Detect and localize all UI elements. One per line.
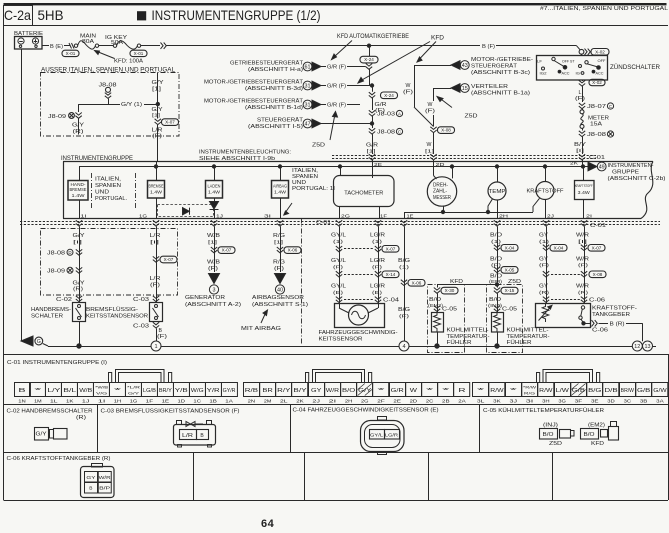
connector C-01 crossing <box>401 220 407 226</box>
svg-text:(F): (F) <box>372 265 383 271</box>
svg-text:*: * <box>510 388 517 394</box>
wire W2 to arrow 15 <box>434 88 452 90</box>
svg-text:R: R <box>458 388 466 394</box>
node ground 12 <box>632 341 642 351</box>
svg-text:G/R (F): G/R (F) <box>327 65 346 71</box>
connector X-30 <box>434 288 440 294</box>
connector view C-06 <box>81 467 115 498</box>
svg-text:13: 13 <box>645 344 651 350</box>
svg-text:C-05: C-05 <box>502 307 517 313</box>
lamp AIRBAG 1.4W <box>278 165 281 168</box>
pin 1A cell <box>222 383 238 397</box>
fuse MAIN 80A <box>74 44 77 47</box>
svg-text:BREMSE: BREMSE <box>149 184 164 189</box>
wire B to ignition switch <box>141 45 160 47</box>
lamp LADEN 1.4W with diode <box>212 165 215 168</box>
svg-text:2G: 2G <box>341 213 351 218</box>
svg-text:4: 4 <box>402 344 405 350</box>
page arrow 43 MOTOR-/GETRIEBE-STEUERGERAET B-3c <box>451 61 460 70</box>
svg-text:B/O: B/O <box>342 388 355 394</box>
svg-text:ZAHL-: ZAHL- <box>433 189 447 195</box>
svg-text:5HB: 5HB <box>38 7 64 23</box>
svg-text:(ABSCHNITT B-1a): (ABSCHNITT B-1a) <box>471 91 530 97</box>
svg-text:B: B <box>18 388 27 394</box>
node ground EM2 sensor <box>435 344 439 348</box>
svg-text:(F): (F) <box>399 314 410 320</box>
svg-text:3B: 3B <box>640 399 648 404</box>
wire W diagonal <box>414 107 434 127</box>
connector X-01 right <box>130 50 147 56</box>
svg-text:HANDBREMS-: HANDBREMS- <box>31 307 71 313</box>
svg-text:3C: 3C <box>624 399 632 404</box>
gauge DREHZAHLMESSER <box>427 177 456 206</box>
svg-text:(1): (1) <box>372 239 383 245</box>
svg-text:C-01: C-01 <box>316 220 331 226</box>
svg-text:B: B <box>200 433 204 439</box>
svg-text:A: A <box>398 111 401 116</box>
svg-text:G/B: G/B <box>637 388 651 394</box>
wire W to arrow 43 <box>414 65 451 67</box>
svg-text:TACHOMETER: TACHOMETER <box>344 191 383 197</box>
svg-text:G: G <box>37 339 41 345</box>
connector C-01 crossing <box>211 220 217 226</box>
svg-text:(F): (F) <box>578 263 589 269</box>
svg-text:B/G: B/G <box>398 307 410 313</box>
svg-text:C-04 FAHRZEUGGESCHWINDIGKEITSS: C-04 FAHRZEUGGESCHWINDIGKEITSSENSOR (E) <box>293 408 439 414</box>
connector J8-07 C <box>579 103 585 109</box>
dashed connector line C-01 top <box>332 155 596 157</box>
pin 1M cell <box>30 383 46 397</box>
ground symbol G <box>21 336 33 346</box>
svg-text:X-04: X-04 <box>554 245 564 250</box>
svg-text:2F: 2F <box>377 399 385 404</box>
svg-text:J8-07: J8-07 <box>587 104 606 110</box>
svg-text:3J: 3J <box>510 399 518 404</box>
svg-text:MOTOR-/GETRIEBE-: MOTOR-/GETRIEBE- <box>471 57 533 63</box>
svg-text:V/G: V/G <box>96 390 107 395</box>
svg-text:(ABSCHNITT B-3c): (ABSCHNITT B-3c) <box>471 70 530 76</box>
svg-text:Z5D: Z5D <box>508 279 521 285</box>
connector C-01 crossing B/Y pin 2K <box>579 154 585 160</box>
svg-text:(F): (F) <box>274 266 285 272</box>
svg-text:LF: LF <box>537 60 542 64</box>
svg-text:2L: 2L <box>280 399 288 404</box>
svg-text:Y/B: Y/B <box>175 388 189 394</box>
svg-text:64: 64 <box>261 518 275 530</box>
svg-text:KEITSSTANDSENSOR: KEITSSTANDSENSOR <box>86 314 148 320</box>
wire B to X-24 tap <box>367 44 370 47</box>
svg-text:KRAFTSTOFF: KRAFTSTOFF <box>527 189 564 195</box>
svg-text:C-01: C-01 <box>590 223 606 229</box>
svg-text:D/B: D/B <box>604 388 618 394</box>
connector C-06 pair <box>543 297 549 303</box>
svg-text:#7...ITALIEN, SPANIEN UND PORT: #7...ITALIEN, SPANIEN UND PORTUGAL <box>540 6 669 12</box>
sender KRAFTSTOFF-TANKGEBER <box>536 304 591 328</box>
pin 2K cell <box>292 383 308 397</box>
svg-text:1M: 1M <box>34 399 42 404</box>
svg-text:[I]: [I] <box>150 240 159 246</box>
connector C-01 crossing <box>494 220 500 226</box>
svg-text:3E: 3E <box>591 399 599 404</box>
connector X-24 upper <box>360 56 378 63</box>
svg-text:C-02: C-02 <box>56 297 72 303</box>
svg-text:B/O: B/O <box>490 257 502 263</box>
cluster internal ground bus <box>405 212 534 214</box>
svg-text:ACC: ACC <box>562 72 571 76</box>
svg-text:B/L: B/L <box>63 388 76 394</box>
svg-text:(F): (F) <box>403 90 414 96</box>
svg-text:(E): (E) <box>372 290 383 296</box>
svg-text:C-2a: C-2a <box>4 7 31 23</box>
svg-text:31: 31 <box>305 83 311 89</box>
wire W/R column fuel gauge <box>584 226 586 303</box>
svg-text:(1): (1) <box>333 239 344 245</box>
connector C-05 left <box>434 306 440 312</box>
svg-text:1B: 1B <box>209 399 217 404</box>
svg-text:1.4W: 1.4W <box>150 190 162 195</box>
connector J8-08 X <box>579 131 585 137</box>
svg-text:GENERATOR: GENERATOR <box>185 295 225 301</box>
svg-text:[1]: [1] <box>274 240 283 246</box>
connector X-01 left <box>62 50 79 56</box>
svg-text:R/G: R/G <box>273 260 285 266</box>
variant box EM2 KFD <box>428 285 465 353</box>
variant box lower left <box>41 229 178 296</box>
svg-text:GY/L: GY/L <box>331 284 346 290</box>
svg-text:IG: IG <box>576 72 581 76</box>
svg-text:1L: 1L <box>50 399 58 404</box>
svg-text:IG2: IG2 <box>540 72 547 76</box>
node ground junction handbrake <box>77 344 81 348</box>
svg-text:L/Y: L/Y <box>47 388 61 394</box>
node ground 13 <box>643 341 653 351</box>
svg-text:W/R: W/R <box>576 284 589 290</box>
pin 2A cell <box>454 383 470 397</box>
pin 2E cell <box>390 383 406 397</box>
svg-text:47: 47 <box>305 121 311 127</box>
pin 3B cell <box>636 383 652 397</box>
svg-text:61: 61 <box>305 64 311 70</box>
svg-text:(INJ): (INJ) <box>543 423 558 429</box>
svg-text:X-07: X-07 <box>592 245 602 250</box>
pin 3K cell <box>489 383 505 397</box>
svg-text:C-05: C-05 <box>442 307 457 313</box>
pin 3I cell <box>522 383 538 397</box>
svg-text:43: 43 <box>462 63 468 69</box>
pin 3E cell <box>587 383 603 397</box>
pin 2C cell <box>422 383 438 397</box>
svg-text:3I: 3I <box>526 399 534 404</box>
svg-text:B/O: B/O <box>584 432 595 438</box>
svg-text:LG/B: LG/B <box>143 388 157 394</box>
pin 1F cell <box>142 383 158 397</box>
svg-text:1A: 1A <box>225 399 233 404</box>
connector X-06 on R/G <box>277 247 283 253</box>
wire B(E) battery to fuse <box>42 45 49 47</box>
svg-text:MIT AIRBAG: MIT AIRBAG <box>241 326 282 332</box>
gauge KRAFTSTOFF <box>536 182 554 200</box>
svg-text:C-02 HANDBREMSSCHALTER: C-02 HANDBREMSSCHALTER <box>7 409 93 415</box>
svg-text:R/Y: R/Y <box>277 388 291 394</box>
svg-text:(F): (F) <box>491 263 502 269</box>
svg-text:BR/Y: BR/Y <box>159 388 173 394</box>
svg-text:(R): (R) <box>76 415 86 421</box>
svg-text:1N: 1N <box>18 399 26 404</box>
svg-text:C-01 INSTRUMENTENGRUPPE (I): C-01 INSTRUMENTENGRUPPE (I) <box>7 360 107 366</box>
svg-text:[1]: [1] <box>208 240 217 246</box>
svg-text:G/R (F): G/R (F) <box>327 84 346 90</box>
pin 1C cell <box>190 383 206 397</box>
svg-text:2C: 2C <box>426 399 434 404</box>
svg-text:C-03 BREMSFLÜSSIGKEITSSTANDSEN: C-03 BREMSFLÜSSIGKEITSSTANDSENSOR (F) <box>101 408 240 415</box>
svg-text:G/Y: G/Y <box>358 388 372 394</box>
svg-text:1I: 1I <box>81 213 87 218</box>
svg-text:J8-08: J8-08 <box>47 251 65 257</box>
pin 1K cell <box>62 383 78 397</box>
svg-text:*: * <box>34 388 41 394</box>
pin 2F cell <box>373 383 389 397</box>
pin 1I cell <box>94 383 110 397</box>
svg-text:W: W <box>406 83 411 89</box>
svg-text:1C: 1C <box>193 399 201 404</box>
svg-text:2A: 2A <box>458 399 466 404</box>
sensor FAHRZEUGGESCHWINDIGKEITSSENSOR <box>335 304 385 328</box>
wire W/B column generator <box>214 226 216 272</box>
connector C-01 crossing <box>543 220 549 226</box>
svg-text:GY: GY <box>86 475 96 481</box>
svg-text:(ABSCHNITT H-a): (ABSCHNITT H-a) <box>248 67 303 73</box>
connector C-01 crossing <box>375 220 381 226</box>
svg-text:W/B: W/B <box>79 388 93 394</box>
svg-text:[I]: [I] <box>73 240 82 246</box>
wire branch to EM2 variant <box>437 284 497 286</box>
svg-text:G/Y: G/Y <box>128 390 140 395</box>
dashed connector line C-01 bottom <box>20 221 660 223</box>
svg-text:3D: 3D <box>607 399 615 404</box>
svg-text:L/W: L/W <box>556 388 570 394</box>
svg-text:[1]: [1] <box>367 149 376 155</box>
lamp BREMSE 1.4W <box>154 165 157 168</box>
pin 3H cell <box>538 383 554 397</box>
svg-text:W/B: W/B <box>207 260 221 266</box>
connector X-02 lower <box>582 80 584 81</box>
svg-text:2J: 2J <box>312 399 320 404</box>
svg-text:C-03: C-03 <box>133 324 149 330</box>
connector X-07 on W/R <box>581 245 587 251</box>
svg-text:3H: 3H <box>542 399 550 404</box>
svg-text:C-04: C-04 <box>383 298 399 304</box>
sensor BREMSFLUESSIGKEITSSTANDSENSOR <box>150 303 163 322</box>
wire to ground 12 13 <box>642 323 644 341</box>
svg-text:(1): (1) <box>399 265 410 271</box>
svg-text:1F: 1F <box>146 399 154 404</box>
pin 3L cell <box>473 383 489 397</box>
svg-text:W: W <box>427 142 432 148</box>
svg-text:Z5D: Z5D <box>549 441 563 447</box>
svg-text:2K: 2K <box>296 399 304 404</box>
svg-text:B (E): B (E) <box>50 44 63 50</box>
svg-text:X-02: X-02 <box>592 80 602 85</box>
svg-text:J8-09: J8-09 <box>47 269 65 275</box>
connector X-15 <box>494 288 500 294</box>
svg-text:J8-09: J8-09 <box>48 114 66 120</box>
svg-text:1E: 1E <box>162 399 170 404</box>
svg-text:3I: 3I <box>264 213 271 218</box>
switch HANDBREMSSCHALTER <box>73 303 86 322</box>
svg-text:C-06 KRAFTSTOFFTANKGEBER (R): C-06 KRAFTSTOFFTANKGEBER (R) <box>7 456 111 462</box>
svg-text:3: 3 <box>213 287 216 293</box>
wire G/Y vertical to cluster <box>157 73 159 105</box>
svg-text:BREMSFLÜSSIG-: BREMSFLÜSSIG- <box>86 306 138 313</box>
svg-text:49: 49 <box>599 164 605 170</box>
svg-text:W/R: W/R <box>576 257 589 263</box>
svg-text:AIRBAGSENSOR: AIRBAGSENSOR <box>252 295 304 301</box>
svg-text:(F): (F) <box>157 334 168 340</box>
svg-text:B/O: B/O <box>543 432 554 438</box>
svg-text:J8-08: J8-08 <box>377 130 395 136</box>
svg-text:DREH-: DREH- <box>433 182 448 188</box>
wire L/R column brake fluid <box>156 226 158 302</box>
svg-text:3.4W: 3.4W <box>578 190 591 195</box>
svg-text:2B: 2B <box>442 399 450 404</box>
svg-text:G/Y (1): G/Y (1) <box>121 102 142 108</box>
svg-text:(F): (F) <box>333 265 344 271</box>
pin 2B cell <box>438 383 454 397</box>
svg-text:*: * <box>114 388 121 394</box>
fuse METER 15A <box>580 110 584 114</box>
svg-text:(R): (R) <box>578 290 589 296</box>
connector X-04 on GY <box>543 245 549 251</box>
svg-text:*L/R: *L/R <box>127 385 140 390</box>
sensor KUEHLMITTELTEMPERATURFUEHLER right <box>492 313 504 333</box>
svg-text:1.4W: 1.4W <box>208 190 220 195</box>
svg-text:B/G: B/G <box>398 258 410 264</box>
pin 1H cell <box>110 383 126 397</box>
pin 2J cell <box>309 383 325 397</box>
svg-text:1: 1 <box>154 344 157 350</box>
svg-text:W/R: W/R <box>326 388 340 394</box>
connector C-01 crossing <box>76 220 82 226</box>
node junction G/R lower <box>370 122 373 125</box>
svg-text:2N: 2N <box>248 399 256 404</box>
svg-text:(ABSCHNITT I-5): (ABSCHNITT I-5) <box>248 124 303 130</box>
svg-text:2I: 2I <box>329 399 337 404</box>
svg-text:Y/R: Y/R <box>207 388 221 394</box>
ignition switch contacts right <box>579 65 582 68</box>
svg-text:X-07: X-07 <box>222 248 232 253</box>
svg-text:GY: GY <box>539 257 549 263</box>
svg-text:GRUPPE: GRUPPE <box>612 170 640 176</box>
svg-text:C-03: C-03 <box>133 297 149 303</box>
svg-text:1.4W: 1.4W <box>72 193 86 198</box>
connector X-14 pair <box>336 271 342 277</box>
pin 3D cell <box>603 383 619 397</box>
svg-text:1E: 1E <box>407 213 414 218</box>
svg-text:X-24: X-24 <box>364 57 374 62</box>
svg-text:R/G: R/G <box>524 390 535 395</box>
svg-text:X-07: X-07 <box>164 257 174 262</box>
svg-text:2M: 2M <box>264 399 272 404</box>
svg-text:(1): (1) <box>491 239 502 245</box>
svg-text:KEITSSENSOR: KEITSSENSOR <box>319 337 363 343</box>
wire GY/L column speed sensor <box>339 226 341 303</box>
svg-text:INSTRUMENTENBELEUCHTUNG:: INSTRUMENTENBELEUCHTUNG: <box>199 150 291 156</box>
svg-text:(F): (F) <box>425 109 436 115</box>
svg-text:(ABSCHNITT C-2b): (ABSCHNITT C-2b) <box>608 176 666 182</box>
connector J8-09 branch <box>78 104 80 112</box>
connector housing bracket <box>109 373 112 383</box>
svg-text:3K: 3K <box>493 399 501 404</box>
svg-text:X-01: X-01 <box>134 51 144 56</box>
cluster power rail <box>79 166 588 168</box>
svg-text:GY/L: GY/L <box>331 258 346 264</box>
connector J8-08 C <box>369 128 375 134</box>
pin 1N cell <box>15 383 31 397</box>
connector housing bracket <box>306 373 309 383</box>
svg-text:*W/B: *W/B <box>95 385 109 390</box>
pin 1E cell <box>158 383 174 397</box>
svg-text:B/Y: B/Y <box>574 142 587 148</box>
fuse IG KEY 50A <box>113 44 116 47</box>
svg-text:TEMPERATUR-: TEMPERATUR- <box>447 334 490 340</box>
svg-text:KFD: KFD <box>591 441 605 447</box>
svg-text:X-08: X-08 <box>441 128 451 133</box>
svg-text:GY: GY <box>539 233 549 239</box>
connector C-01 crossing W pin 2D <box>430 154 436 160</box>
svg-text:*: * <box>426 388 433 394</box>
svg-text:G/Y: G/Y <box>36 432 48 438</box>
svg-text:B/G: B/G <box>588 388 601 394</box>
svg-text:X-06: X-06 <box>412 280 422 285</box>
svg-text:2H: 2H <box>345 399 353 404</box>
svg-text:R/W: R/W <box>490 388 504 394</box>
svg-text:X-02: X-02 <box>595 49 605 54</box>
svg-text:2E: 2E <box>393 399 401 404</box>
variant divider lines Italien <box>91 173 93 208</box>
svg-text:15A: 15A <box>590 122 602 128</box>
svg-text:80A: 80A <box>82 39 94 45</box>
svg-text:GY/R: GY/R <box>223 388 236 394</box>
ground bus line <box>48 346 151 348</box>
svg-text:VERTEILER: VERTEILER <box>471 84 508 90</box>
svg-text:G/Y: G/Y <box>73 233 86 239</box>
svg-text:GY/L: GY/L <box>370 433 384 438</box>
svg-text:X-01: X-01 <box>66 51 76 56</box>
svg-text:X-04: X-04 <box>505 245 515 250</box>
svg-text:INSTRUMENTENGRUPPE (1/2): INSTRUMENTENGRUPPE (1/2) <box>152 8 321 23</box>
pin 1L cell <box>46 383 62 397</box>
svg-text:2G: 2G <box>361 399 369 404</box>
section line C-02 row <box>4 404 669 406</box>
svg-text:KRAFTSTOFF-: KRAFTSTOFF- <box>592 306 637 312</box>
svg-text:B (F): B (F) <box>482 44 495 50</box>
svg-text:X-08: X-08 <box>593 272 603 277</box>
svg-text:INSTRUMENTEN-: INSTRUMENTEN- <box>608 163 654 169</box>
svg-text:1I: 1I <box>98 399 106 404</box>
pin 2G cell <box>357 383 373 397</box>
page border left <box>3 25 5 500</box>
svg-text:1J: 1J <box>216 213 223 218</box>
svg-text:KFD: 100A: KFD: 100A <box>114 59 143 65</box>
pin 1B cell <box>206 383 222 397</box>
node ground INJ sensor <box>495 344 499 348</box>
node junction G/R <box>370 84 373 87</box>
wire G/Y column handbrake <box>79 226 81 302</box>
title block INSTRUMENTENGRUPPE (1/2) <box>137 11 146 20</box>
svg-text:TEMPERATUR-: TEMPERATUR- <box>507 334 550 340</box>
svg-text:KFD AUTOMATIKGETRIEBE: KFD AUTOMATIKGETRIEBE <box>337 34 409 40</box>
connector X-08 on W <box>430 127 436 133</box>
